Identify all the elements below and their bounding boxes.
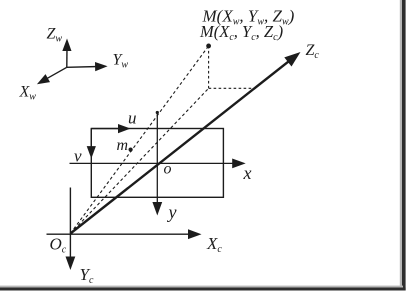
axis v along left edge <box>87 129 96 159</box>
camera axis Yc <box>66 188 76 271</box>
node dot top of y axis <box>156 111 159 114</box>
svg-text:M(Xc, Yc, Zc): M(Xc, Yc, Zc) <box>199 22 283 43</box>
camera axis Xc <box>47 229 202 239</box>
frame shadow bottom <box>0 288 406 291</box>
world axis Xw <box>37 67 67 84</box>
dashed ray Oc to M <box>70 46 208 234</box>
world axis Zw <box>62 39 71 68</box>
svg-text:y: y <box>167 202 177 222</box>
svg-text:u: u <box>128 109 137 128</box>
dashed horizontal corner to Zc axis <box>209 87 252 89</box>
image x axis <box>70 159 246 169</box>
image y axis <box>152 112 162 216</box>
axis u along top edge <box>91 124 130 133</box>
image plane rectangle <box>91 129 223 198</box>
camera axis Zc (thick) <box>70 52 300 234</box>
dashed vertical M drop <box>208 46 210 88</box>
world axis Yw <box>67 62 108 71</box>
svg-text:x: x <box>243 163 252 183</box>
svg-text:v: v <box>74 147 82 166</box>
svg-text:m: m <box>117 137 129 154</box>
point M <box>206 44 211 49</box>
svg-text:o: o <box>164 161 172 178</box>
frame shadow right <box>402 0 406 291</box>
point m <box>129 148 133 152</box>
dashed ray Oc to corner <box>70 88 208 233</box>
